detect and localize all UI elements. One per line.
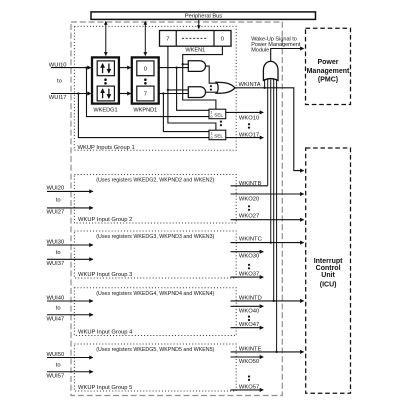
svg-text:WUI57: WUI57 <box>47 373 65 379</box>
label to (group 2) <box>56 197 61 203</box>
label to (group 3) <box>56 250 61 256</box>
svg-text:WKINTC: WKINTC <box>239 237 262 243</box>
svg-text:WKO57: WKO57 <box>239 385 259 391</box>
svg-text:(PMC): (PMC) <box>318 77 338 84</box>
label WKUP Input Group 5 <box>78 385 132 391</box>
wire WKINTA into O2 input A <box>264 79 266 88</box>
WKUP input group 4 dotted box <box>74 288 236 336</box>
ellipsis dots between O1 inputs <box>210 85 212 91</box>
label WKO27 <box>239 213 259 219</box>
wire WKINTB to O2 <box>231 185 268 187</box>
svg-text:WKO20: WKO20 <box>239 197 259 203</box>
label to (group1) <box>57 79 62 85</box>
wire WUI27 input <box>47 207 93 209</box>
wire WKPND1 bit0 to AND gate A1 <box>159 66 189 68</box>
wire WKO47 output <box>231 327 264 329</box>
label WKUP Inputs Group 1 <box>78 145 135 151</box>
svg-text:WKO27: WKO27 <box>239 213 259 219</box>
label WKO47 <box>239 322 259 328</box>
label WKO57 <box>239 385 259 391</box>
label uses registers group 3 <box>96 234 214 240</box>
svg-text:Control: Control <box>316 265 341 272</box>
wire O2 output to PMC <box>271 49 304 62</box>
WKUP input group 3 dotted box <box>74 231 236 278</box>
wire WKINTB into O2 input B <box>267 79 269 185</box>
label WUI30 <box>47 239 65 245</box>
svg-text:WKINTB: WKINTB <box>239 181 262 187</box>
wire WUI57 input <box>47 371 93 373</box>
wire WKEDG1 to WKPND1 row7 <box>119 93 131 95</box>
wire WKO37 output <box>231 276 264 278</box>
wire WUI50 input <box>47 357 93 359</box>
svg-text:WKINTE: WKINTE <box>239 346 262 352</box>
svg-text:(ICU): (ICU) <box>320 281 337 288</box>
svg-text:7: 7 <box>144 92 147 98</box>
label WKINTC <box>239 237 262 243</box>
svg-text:WKO10: WKO10 <box>239 116 259 122</box>
svg-text:WKUP Input Group 3: WKUP Input Group 3 <box>78 272 132 278</box>
svg-text:to: to <box>56 362 61 368</box>
svg-text:1: 1 <box>211 131 213 135</box>
wire WKINTE to ICU <box>231 351 304 353</box>
or gate O1 (group1 interrupt) <box>216 82 235 93</box>
and gate A2 (bit7 enable) <box>188 87 205 98</box>
wire WUI47 input <box>47 314 93 316</box>
svg-text:WUI17: WUI17 <box>49 95 67 101</box>
wire WUI10 to WKEDG1 <box>51 66 91 68</box>
block WKPND1 (pending register) <box>132 57 159 103</box>
wire WKEN1 bit0 to AND gate A1 and SEL1 select <box>182 46 223 109</box>
label WKEN1 <box>185 48 205 54</box>
and gate A1 (bit0 enable) <box>188 61 205 72</box>
svg-text:Peripheral Bus: Peripheral Bus <box>185 13 222 19</box>
ellipsis dots WKO30-WKO37 <box>248 264 250 270</box>
label WKINTE <box>239 346 262 352</box>
label WUI40 <box>47 295 65 301</box>
svg-text:WUI40: WUI40 <box>47 295 65 301</box>
label WKPND1 <box>133 107 157 113</box>
label WKINTB <box>239 181 262 187</box>
wire WKO10 output <box>226 111 263 113</box>
svg-text:Power: Power <box>317 59 338 66</box>
wire WUI10 bypass to SEL1 input0 <box>87 68 210 117</box>
wire WUI37 input <box>47 258 93 260</box>
WKUP input group 5 dotted box <box>74 344 236 391</box>
svg-text:Management: Management <box>307 68 350 75</box>
ellipsis dots WKO40-WKO47 <box>248 316 250 322</box>
svg-text:(Uses registers WKEDG3, WKPND3: (Uses registers WKEDG3, WKPND3 and WKEN3… <box>96 234 214 240</box>
wire WUI20 input <box>47 190 93 192</box>
bus-WKEN1 arrow <box>198 20 200 29</box>
svg-text:WKUP Input Group 4: WKUP Input Group 4 <box>78 330 133 336</box>
svg-text:7: 7 <box>166 37 169 43</box>
wire WKINTA to ICU <box>235 87 304 171</box>
svg-text:WKUP Input Group 2: WKUP Input Group 2 <box>78 217 132 223</box>
svg-text:WKO37: WKO37 <box>239 271 259 277</box>
svg-text:(Uses registers WKEDG2, WKPND2: (Uses registers WKEDG2, WKPND2 and WKEN2… <box>96 178 214 184</box>
label WKO20 <box>239 197 259 203</box>
label to (group 4) <box>56 306 61 312</box>
svg-text:Interrupt: Interrupt <box>314 258 343 265</box>
block WKEDG1 (edge detect register) <box>92 57 119 103</box>
peripheral bus <box>91 12 316 20</box>
label WKO30 <box>239 254 259 260</box>
mux SEL1 <box>209 109 226 119</box>
svg-text:Module: Module <box>251 48 269 54</box>
wire WKO50 output <box>231 356 264 358</box>
svg-text:WKO40: WKO40 <box>239 308 259 314</box>
wire WKINTD to ICU <box>231 300 304 302</box>
label wake-up signal <box>251 36 301 53</box>
wire WKO27 to ICU <box>231 219 304 221</box>
wire WKO17 output <box>226 137 263 139</box>
svg-text:0: 0 <box>221 37 224 43</box>
ellipsis dots WKO20-WKO27 <box>248 205 250 211</box>
label uses registers group 4 <box>96 291 214 297</box>
wire WKINTC to ICU <box>231 241 304 243</box>
label WUI27 <box>47 209 65 215</box>
ellipsis dots WKO50-WKO57 <box>248 375 250 381</box>
wire WUI30 input <box>47 244 93 246</box>
block Interrupt Control Unit (ICU) <box>306 148 351 393</box>
label uses registers group 2 <box>96 178 214 184</box>
label WKUP Input Group 2 <box>78 217 132 223</box>
svg-text:(Uses registers WKEDG5, WKPND5: (Uses registers WKEDG5, WKPND5 and WKEN5… <box>96 347 214 353</box>
label uses registers group 5 <box>96 347 214 353</box>
svg-text:WKO17: WKO17 <box>239 132 259 138</box>
WKUP inputs group 1 dotted box <box>74 26 236 150</box>
wire A2 output to OR gate O1 <box>206 91 217 93</box>
label WKEDG1 <box>93 107 117 113</box>
label WKO50 <box>239 359 259 365</box>
label WUI20 <box>47 186 65 192</box>
wire WKEDG1 to WKPND1 row0 <box>119 67 131 69</box>
label WKO40 <box>239 308 259 314</box>
ellipsis dots between SEL muxes <box>220 121 222 127</box>
wire WKO57 output <box>231 389 264 391</box>
svg-text:SEL: SEL <box>214 112 223 117</box>
svg-text:Unit: Unit <box>321 272 335 279</box>
svg-text:to: to <box>57 79 62 85</box>
label to (group 5) <box>56 362 61 368</box>
svg-text:(Uses registers WKEDG4, WKPND4: (Uses registers WKEDG4, WKPND4 and WKEN4… <box>96 291 214 297</box>
label WUI10 <box>49 62 67 68</box>
label WKO37 <box>239 271 259 277</box>
ellipsis dots WKO10-WKO17 <box>248 123 250 129</box>
label WUI37 <box>47 261 65 267</box>
svg-text:WUI37: WUI37 <box>47 261 65 267</box>
svg-text:SEL: SEL <box>214 133 223 138</box>
register WKEN1 <box>160 31 232 47</box>
wire WKO40 output <box>231 305 264 307</box>
svg-text:0: 0 <box>144 67 147 73</box>
svg-text:to: to <box>56 197 61 203</box>
svg-text:WKUP Input Group 5: WKUP Input Group 5 <box>78 385 132 391</box>
svg-text:to: to <box>56 306 61 312</box>
wire WUI40 input <box>47 300 93 302</box>
wire WKPND1 bit7 to AND gate A2 <box>159 92 189 94</box>
wire WKEN1 bit7 to AND gate A2 and SEL2 select <box>167 46 216 130</box>
svg-text:WUI47: WUI47 <box>47 316 65 322</box>
outer dashed boundary of Multi-Input Wake-Up unit <box>71 22 282 396</box>
svg-text:WKO50: WKO50 <box>239 359 259 365</box>
label WUI47 <box>47 316 65 322</box>
WKUP input group 2 dotted box <box>74 175 236 224</box>
label WKINTA <box>239 82 261 88</box>
wire WKINTC into O2 input C <box>270 80 272 243</box>
svg-text:WUI30: WUI30 <box>47 239 65 245</box>
svg-text:WUI50: WUI50 <box>47 352 65 358</box>
svg-text:WKUP Inputs Group 1: WKUP Inputs Group 1 <box>78 145 135 151</box>
label WKO10 <box>239 116 259 122</box>
label WUI17 <box>49 95 67 101</box>
svg-text:WKPND1: WKPND1 <box>133 107 157 113</box>
mux SEL2 <box>209 130 226 140</box>
block Power Management (PMC) <box>306 28 351 104</box>
svg-text:0: 0 <box>211 115 213 119</box>
svg-text:1: 1 <box>211 110 213 114</box>
label WKUP Input Group 3 <box>78 272 132 278</box>
svg-text:to: to <box>56 250 61 256</box>
label WUI57 <box>47 373 65 379</box>
label WKINTD <box>239 295 262 301</box>
svg-text:0: 0 <box>211 136 213 140</box>
wire A1 output to OR gate O1 <box>206 66 217 83</box>
label WKO17 <box>239 132 259 138</box>
wire WKO20 to ICU <box>231 193 304 195</box>
wire WKINTE into O2 input E <box>276 79 278 352</box>
label WUI50 <box>47 352 65 358</box>
wire WKINTD into O2 input D <box>273 79 275 301</box>
svg-text:WKO30: WKO30 <box>239 254 259 260</box>
svg-text:WKINTD: WKINTD <box>239 295 262 301</box>
or gate O2 (wake-up signal) <box>263 61 278 80</box>
svg-text:WKEN1: WKEN1 <box>185 48 205 54</box>
svg-text:WUI27: WUI27 <box>47 209 65 215</box>
wire WKO30 output <box>231 251 264 253</box>
label WKUP Input Group 4 <box>78 330 133 336</box>
bus-WKEDG1 double arrow <box>105 22 107 56</box>
svg-text:WKEDG1: WKEDG1 <box>93 107 117 113</box>
wire WKPND bit0 to SEL1 input1 <box>177 68 209 111</box>
wire WUI17 to WKEDG1 <box>51 92 91 94</box>
svg-text:WKO47: WKO47 <box>239 322 259 328</box>
bus-WKPND1 double arrow <box>144 22 146 56</box>
svg-text:WUI20: WUI20 <box>47 186 65 192</box>
wire WKPND bit7 to SEL2 input1 <box>163 94 209 132</box>
wire WUI17 bypass to SEL2 input0 <box>78 94 209 138</box>
svg-text:WKINTA: WKINTA <box>239 82 261 88</box>
